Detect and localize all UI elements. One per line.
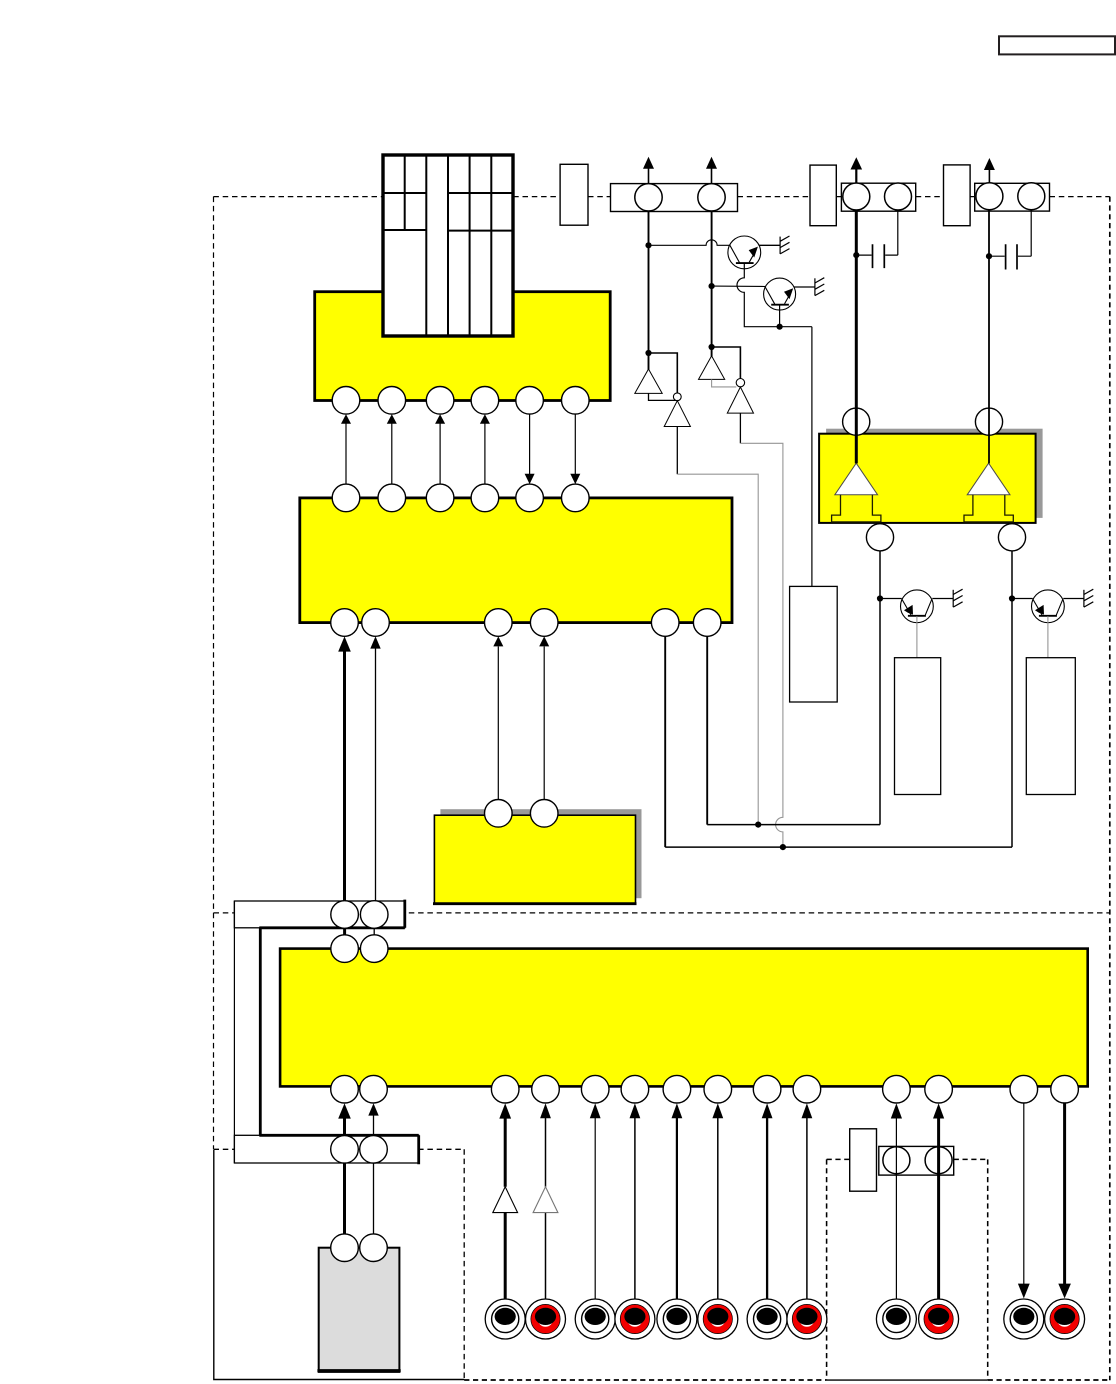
- gray wire Q4 base to R3: [1047, 616, 1049, 658]
- connector pin table on U1: [383, 155, 513, 336]
- dashed border top edge: [213, 196, 1109, 198]
- wire CN2 up to U5 left pin bold with arrow: [338, 1103, 351, 1135]
- wires U1 to U2 with up arrows: [346, 423, 485, 484]
- connector J2 pin 1: [843, 183, 870, 210]
- U3 top pins: [485, 800, 559, 828]
- transformer top pins: [331, 1234, 388, 1262]
- input wire 4: [630, 1103, 641, 1298]
- arrow up from J1 pin 2: [706, 157, 717, 184]
- junction dot node B1: [709, 283, 715, 289]
- inverter N2 output down: [676, 427, 678, 475]
- RCA jack 7 white: [747, 1299, 787, 1339]
- wires U3 to U2 with up arrows: [498, 647, 544, 806]
- transistor Q1: [728, 236, 780, 269]
- RCA jack 8 red: [787, 1299, 827, 1339]
- wire node B1 to Q2 base: [712, 285, 766, 287]
- amp U4 output pin right: [998, 524, 1025, 551]
- wire J3 pin1 down to amp U4: [988, 210, 990, 464]
- output wire right bold with down arrow: [1058, 1103, 1071, 1298]
- resistor block R2: [895, 658, 941, 795]
- IC block U2 (middle yellow): [300, 498, 732, 623]
- arrow up from J3 pin 1: [984, 158, 995, 183]
- input wire 7: [762, 1103, 773, 1298]
- RCA jack 12 red: [1045, 1299, 1085, 1339]
- amp U4 input pin right: [975, 408, 1002, 435]
- junction dot node A1: [645, 242, 651, 248]
- output wire left with down arrow: [1018, 1103, 1030, 1298]
- junction dot node D: [877, 595, 883, 601]
- junction dot node A2: [645, 350, 651, 356]
- RCA jack 5 white: [657, 1299, 697, 1339]
- transistor Q2: [764, 278, 815, 310]
- wire U2 pin down right: [706, 636, 708, 824]
- wire CN2 to transformer thin: [373, 1163, 375, 1235]
- bus wire CN1 to CN2 thick: [259, 928, 262, 1137]
- connector J4 pin 2: [925, 1147, 952, 1174]
- IC block U3 (small yellow): [434, 815, 635, 904]
- junction dot on J3 wire: [986, 253, 992, 259]
- inverter N4 bubble: [736, 379, 744, 387]
- solid bottom-middle box bottom edge: [827, 1379, 988, 1381]
- connector J1 pin 1: [635, 184, 662, 211]
- gray wire N2 output to line A: [677, 474, 758, 824]
- inverter N3: [699, 356, 725, 380]
- amp U4 right channel triangle: [967, 463, 1010, 495]
- amplifier IC U4 shadow: [826, 429, 1043, 518]
- RCA jack 6 red: [698, 1299, 738, 1339]
- connector strip CN2 mating thick edges: [259, 1135, 418, 1164]
- RCA jack 10 red: [919, 1299, 959, 1339]
- IC block U3 bottom thick edge: [433, 902, 637, 905]
- IC block U3 shadow: [440, 809, 641, 898]
- gray wire N4 output to line B with hop over line A: [740, 443, 783, 847]
- U2 bottom pins: [331, 609, 721, 637]
- connector J3 (2-pin): [975, 183, 1050, 211]
- U1 bottom pins: [332, 387, 589, 415]
- wire CN2 up to U5 pin with arrow: [368, 1103, 378, 1135]
- connector J4 pin 1: [883, 1147, 910, 1174]
- wire amp U4 left output down: [879, 551, 881, 825]
- wire node E to Q4: [1012, 598, 1033, 600]
- wire node A1 to Q1 base with hop over J1 pin2 wire: [649, 240, 730, 245]
- wire J1 pin2 down to inverter chain: [711, 211, 713, 356]
- junction dot on line A: [755, 822, 761, 828]
- input wire 2 with buffer B2: [533, 1103, 558, 1298]
- small module box between table and J1: [560, 164, 588, 225]
- wire CN1 to U5 pin left: [343, 915, 346, 949]
- wire Q2 emitter down to node C: [779, 305, 781, 327]
- arrow up from J2 pin 1: [851, 157, 863, 183]
- connector J3 pin 2: [1018, 183, 1045, 210]
- inverter N2: [664, 401, 690, 427]
- input wire 8: [802, 1103, 813, 1298]
- inverter N2 bubble: [673, 393, 681, 401]
- inverter N3 output stub: [712, 379, 737, 387]
- dashed horizontal divider: [214, 912, 1110, 914]
- dashed border left edge: [213, 197, 215, 1150]
- wire Q1 emitter down with hop over Q2 base wire: [737, 263, 812, 327]
- ground G2: [815, 278, 824, 296]
- CN2 pins: [331, 1136, 388, 1164]
- U5 top pins: [331, 935, 388, 963]
- connector strip CN1: [234, 901, 404, 928]
- gray wire Q3 base to R2: [916, 616, 918, 658]
- connector J3 pin 1: [976, 183, 1003, 210]
- IC block U5 (bottom long yellow): [280, 949, 1088, 1087]
- input wire 3: [590, 1103, 601, 1298]
- solid bottom-left box left and bottom edges: [214, 1150, 465, 1380]
- small module box left of J2: [810, 165, 836, 226]
- junction dot on J2 wire: [853, 252, 859, 258]
- power transformer bottom thick edge: [317, 1369, 400, 1372]
- dashed bottom-middle box edges: [827, 1159, 988, 1380]
- connector J4 (2-pin): [879, 1146, 954, 1175]
- connector J1 (top, 2-pin wide): [611, 184, 738, 212]
- title box: [999, 36, 1115, 54]
- wire amp U4 right output down: [1011, 551, 1013, 847]
- U2 top pins: [332, 484, 589, 512]
- IC block U1 (top yellow): [315, 292, 611, 401]
- junction dot node B2: [709, 344, 715, 350]
- junction dot node E: [1009, 595, 1015, 601]
- ground G4: [1084, 589, 1093, 607]
- bold wire from connector strip up to U2 with arrow: [343, 649, 346, 914]
- wire J4 pin1 up to U5 and down to jack: [891, 1103, 902, 1298]
- amp U4 output pin left: [866, 524, 893, 551]
- small module box left of J3: [944, 165, 971, 226]
- wire from connector strip up to U2 with arrow: [375, 647, 377, 914]
- RCA jack 1 white: [485, 1299, 525, 1339]
- input wire 5: [672, 1103, 683, 1298]
- wire node B2 to inverter N4 bubble: [712, 347, 741, 379]
- inverter N1 output stub: [649, 393, 678, 400]
- wire CN1 to U5 pin right: [373, 915, 375, 949]
- RCA jack row: [485, 1299, 1084, 1339]
- inverter N4: [727, 387, 753, 413]
- wire U2 pin down left: [664, 636, 666, 847]
- connector strip CN2: [234, 1135, 418, 1163]
- wire J4 pin2 up to U5 and down to jack bold: [933, 1103, 944, 1298]
- transistor Q3: [901, 590, 954, 623]
- connector J1 pin 2: [698, 184, 725, 211]
- RCA jack 3 white: [575, 1299, 615, 1339]
- RCA jack 9 white: [876, 1299, 916, 1339]
- ground G3: [953, 589, 962, 607]
- input wire 1 bold with buffer B1: [493, 1103, 518, 1298]
- bus line A: [707, 824, 880, 826]
- U5 bottom pins: [331, 1075, 1079, 1103]
- small module box left of J4: [850, 1129, 877, 1191]
- wire node A2 to inverter N2 input: [649, 353, 678, 393]
- power transformer block (gray): [319, 1248, 400, 1372]
- connector J2 (2-pin): [841, 183, 915, 211]
- wire node D to Q3: [880, 598, 902, 600]
- junction dot node C: [777, 324, 783, 330]
- amp U4 left channel triangle: [835, 463, 878, 495]
- amp U4 right channel pedestal: [964, 495, 1013, 522]
- transistor Q4: [1032, 590, 1084, 623]
- wire CN2 to transformer bold: [343, 1163, 346, 1235]
- CN1 pins: [331, 901, 388, 929]
- junction dot on line B: [780, 844, 786, 850]
- dashed border bottom edge: [464, 1379, 1110, 1381]
- connector J2 pin 2: [885, 183, 912, 210]
- wire J1 pin1 down to inverter chain: [648, 211, 650, 370]
- arrow up from J1 pin 1: [643, 157, 654, 184]
- bus wire CN1 to CN2 thin: [233, 901, 235, 1163]
- wires U1 to U2 with down arrows: [530, 414, 576, 474]
- inverter N1: [635, 369, 662, 393]
- capacitor C2: [989, 210, 1031, 270]
- connector strip CN1 mating thick edges: [259, 900, 405, 928]
- dashed bottom-left box top and right edges: [214, 1149, 465, 1380]
- resistor block R1: [790, 586, 838, 702]
- resistor block R3: [1026, 658, 1075, 795]
- dashed border right edge: [1109, 197, 1111, 1381]
- amp U4 left channel pedestal: [832, 495, 881, 522]
- capacitor C1: [856, 211, 898, 268]
- inverter N4 output down: [739, 413, 741, 443]
- RCA jack 4 red: [615, 1299, 655, 1339]
- amp U4 input pin left: [843, 408, 870, 435]
- input wire 6: [712, 1103, 723, 1298]
- wire J2 pin1 down to amp U4: [855, 210, 858, 463]
- RCA jack 2 red: [526, 1299, 566, 1339]
- bus line B: [665, 846, 1012, 848]
- amplifier IC U4 (yellow): [819, 434, 1036, 523]
- ground G1: [780, 236, 789, 254]
- wire node C down to R1: [811, 327, 813, 587]
- RCA jack 11 white: [1004, 1299, 1044, 1339]
